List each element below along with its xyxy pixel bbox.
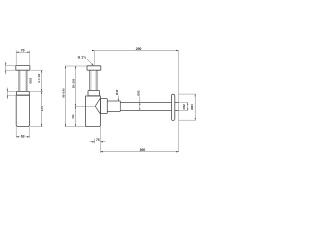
svg-text:111: 111 bbox=[71, 114, 75, 119]
dimension D4 text 105 backing bbox=[40, 106, 43, 111]
svg-text:55÷105: 55÷105 bbox=[72, 78, 76, 88]
dimension D9 Ø32 at wall extension lines bbox=[179, 103, 189, 111]
svg-text:105: 105 bbox=[40, 106, 44, 111]
svg-text:G 1¼: G 1¼ bbox=[78, 55, 87, 59]
svg-text:Ø63: Ø63 bbox=[190, 104, 194, 110]
pipe P1 inner wall lines bbox=[21, 70, 26, 91]
dimension D2a line bbox=[5, 62, 7, 75]
svg-text:75: 75 bbox=[96, 138, 100, 142]
dimension D3 text backing bbox=[20, 134, 26, 137]
dimension D9 arrows bbox=[187, 103, 188, 105]
dimension D8 arrows bbox=[139, 103, 140, 105]
dimension D11 "20" (below body) extension lines bbox=[95, 127, 101, 153]
dimension D7 arrows bbox=[75, 66, 76, 68]
flange F1 (left view top flange) bbox=[16, 66, 30, 71]
flange F2 (left view lock nut) bbox=[17, 91, 30, 95]
dimension D2 (left small thickness dim) extension lines bbox=[7, 91, 17, 95]
dimension D7 vertical "55-105" (inner left of side view) line bbox=[74, 66, 76, 106]
dimension D5 arrows bbox=[92, 50, 94, 51]
leader L1 for G 1 1/4 bbox=[87, 59, 93, 65]
joint J1 (sleeve end line) bbox=[119, 101, 121, 111]
dimension D1 arrows bbox=[16, 52, 18, 53]
svg-text:G 1 1/4: G 1 1/4 bbox=[37, 73, 41, 82]
svg-text:95÷145: 95÷145 bbox=[62, 88, 66, 98]
cone intersection K1 (outlet spigot meets body) bbox=[95, 98, 100, 114]
dimension D3 "63" (below cylinder) extension lines bbox=[16, 127, 29, 138]
extension line E1 at wall end (x=178.6) bbox=[178, 51, 180, 151]
svg-text:290: 290 bbox=[136, 47, 142, 51]
sleeve S1 (outlet sleeve to joint) bbox=[107, 101, 120, 111]
dimension D7b chained lower segment line bbox=[74, 106, 76, 126]
dimension D6 arrows bbox=[65, 66, 66, 68]
dimension D5 extension line at pipe axis bbox=[93, 51, 95, 65]
nut N1 (outlet compression nut) bbox=[101, 99, 108, 114]
dimension D3 arrows bbox=[16, 136, 18, 137]
dimension D2a arrows bbox=[5, 63, 6, 65]
svg-text:Ø40: Ø40 bbox=[115, 89, 119, 95]
dimension D6 vertical "95-145" (outer left of side view) line bbox=[65, 66, 67, 127]
dimension D10 arrows bbox=[195, 94, 196, 96]
tube stub P4 (through wall flange) bbox=[175, 103, 179, 111]
svg-text:Ø32: Ø32 bbox=[182, 104, 186, 110]
dimension D7 extension line at pipe axis level bbox=[75, 105, 95, 107]
flange F3 (side view top flange) bbox=[87, 66, 101, 70]
dimension D5 "290" (top of side view) line bbox=[93, 50, 179, 52]
dimension D9 line bbox=[187, 103, 189, 111]
svg-text:Ø32: Ø32 bbox=[137, 90, 141, 96]
dimension D10 Ø63 flange extension lines bbox=[179, 94, 196, 120]
extension line E2 at flange top level y=66 bbox=[65, 65, 87, 67]
wall flange W1 (escutcheon, side profile) bbox=[171, 94, 174, 120]
leader L2 for Ø40 bbox=[117, 96, 119, 101]
dimension D7b arrows bbox=[75, 106, 76, 108]
body B2 (side view trap body) bbox=[86, 96, 101, 127]
pipe P2 inner wall lines bbox=[91, 70, 96, 90]
svg-text:63: 63 bbox=[21, 134, 25, 138]
dimension D4 line bbox=[41, 70, 43, 126]
svg-text:70: 70 bbox=[21, 49, 25, 53]
pipe P1 (left view vertical pipe) bbox=[19, 70, 27, 91]
tube P3 (horizontal outlet tube) bbox=[120, 103, 171, 111]
collar C1 (side view compression collar) bbox=[88, 91, 100, 96]
dimension D8 Ø32 tube line bbox=[139, 96, 141, 110]
dimension D2a (flange F1 thickness dim) extension lines bbox=[5, 66, 16, 71]
dimension D1 "70" line (left view top) bbox=[16, 51, 30, 53]
dimension D1 extension lines bbox=[16, 50, 30, 65]
dimension D4 chained vertical (right of left view) extension lines bbox=[29, 70, 43, 126]
pipe P2 (side view vertical pipe) bbox=[90, 70, 97, 90]
dimension D3 line bbox=[16, 136, 29, 138]
dimension D11 arrows bbox=[92, 141, 94, 142]
cylinder body B1 (left view trap cup) bbox=[16, 95, 29, 126]
svg-text:300: 300 bbox=[140, 148, 146, 152]
svg-text:Ø32: Ø32 bbox=[29, 77, 33, 83]
dimension D2 arrows bbox=[7, 89, 8, 91]
dimension D10 line bbox=[194, 94, 196, 120]
dimension D2 line bbox=[6, 88, 8, 99]
dimension D4 arrows bbox=[41, 70, 42, 72]
dimension D12 "300" (bottom) line bbox=[100, 151, 178, 153]
dimension D11 line with outside arrows bbox=[90, 141, 106, 143]
dimension D6 extension line at body bottom level bbox=[65, 126, 86, 128]
dimension D12 arrows bbox=[100, 151, 102, 152]
